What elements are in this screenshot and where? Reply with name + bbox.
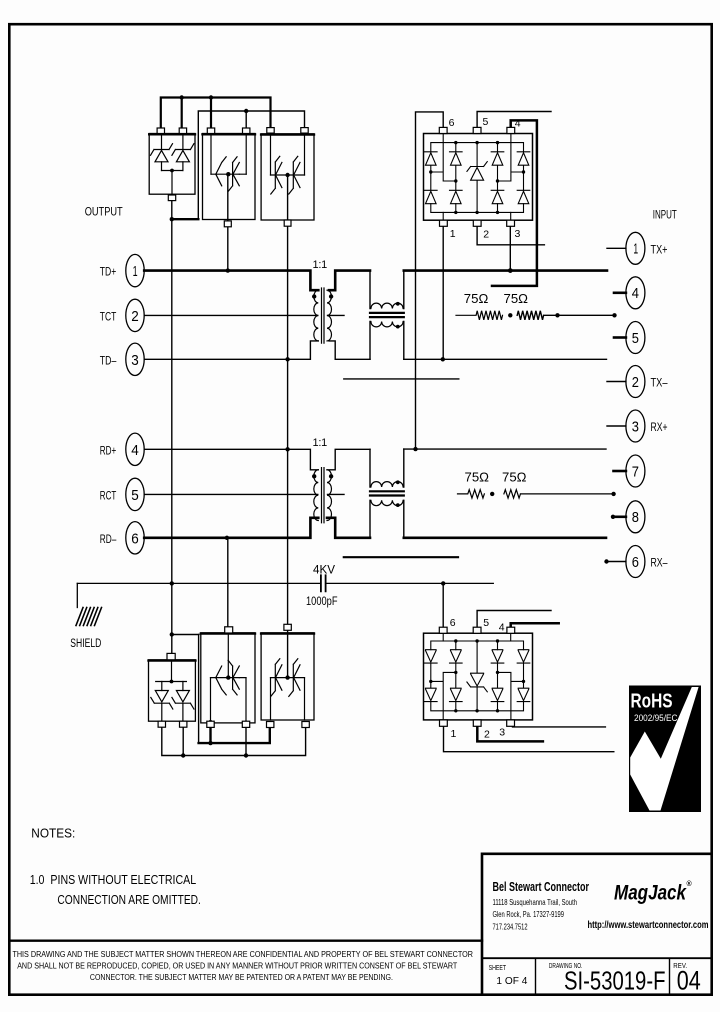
terminal square box6 bottom L: [267, 722, 274, 728]
transformer T2: [312, 437, 333, 523]
terminal square box6 bottom R: [302, 722, 309, 728]
junction dot pin8 stub: [611, 515, 615, 519]
wire U2 pin5 route: [477, 611, 551, 628]
svg-text:11118 Susquehanna Trail, South: 11118 Susquehanna Trail, South: [493, 897, 578, 907]
svg-text:1: 1: [133, 263, 138, 280]
wire U2 pin2 route thick: [477, 726, 543, 741]
svg-text:04: 04: [677, 966, 701, 996]
disclaimer text: [12, 950, 473, 982]
wire U1 pin5 route: [477, 112, 551, 129]
junction dot thick bus box5L: [208, 741, 212, 745]
wire pin4 stub: [614, 291, 626, 294]
resistor R1 75ohm: [456, 292, 503, 320]
svg-text:2: 2: [632, 375, 639, 391]
svg-text:3: 3: [499, 727, 505, 739]
pin circle 4 RD+: [100, 433, 144, 465]
pin circle 8 (input): [626, 501, 645, 533]
diode pair symbol: [271, 659, 300, 697]
TVS diode D3: [151, 691, 173, 710]
junction dot TX- x442.8: [441, 357, 445, 361]
pin circle 3 RX+ (input): [626, 410, 668, 442]
U2 pin labels: [450, 617, 506, 741]
svg-text:4KV: 4KV: [313, 563, 335, 577]
TVS box P1: [149, 134, 195, 196]
U2 internal top bus: [431, 641, 524, 650]
svg-text:1.0 PINS WITHOUT ELECTRICAL: 1.0 PINS WITHOUT ELECTRICAL: [30, 873, 197, 887]
svg-text:7: 7: [632, 464, 639, 480]
svg-text:®: ®: [687, 880, 693, 888]
U1 terminal square 2: [473, 220, 481, 226]
title block vertical divider rev: [669, 958, 671, 995]
TVS box P5 (bottom): [201, 633, 255, 723]
capacitor C1 4KV 1000pF: [77, 563, 493, 608]
TVS box P3: [261, 134, 314, 220]
sheet cell: [489, 963, 528, 987]
svg-text:2: 2: [484, 729, 490, 741]
svg-text:4: 4: [632, 286, 639, 302]
U1 terminal square 3: [507, 220, 515, 226]
U2 diode col4: [517, 650, 530, 702]
terminal square box5 bottom L: [207, 721, 214, 727]
terminal square box3 bottom: [284, 220, 291, 226]
U1 terminal square 6: [439, 127, 447, 133]
notes text: [30, 826, 201, 906]
wire U2 pin3 route: [513, 725, 606, 728]
U1 terminal square 4: [507, 127, 515, 133]
pin circle 4 (input): [626, 277, 645, 309]
wire bottom thin bus: [162, 721, 306, 755]
junction dot thin bus box4R: [181, 753, 185, 757]
wire U1 pin2 down: [477, 226, 544, 245]
TVS diode D1: [151, 144, 173, 162]
wire long vertical x171.8: [171, 201, 173, 653]
junction dot between R1 R2: [508, 313, 512, 317]
diode array U1 box: [424, 134, 533, 221]
U1 bus dots: [454, 141, 499, 214]
wire pin2 stub: [607, 381, 626, 383]
pin circle 6 RX- (input): [626, 546, 668, 578]
svg-text:CONNECTION ARE OMITTED.: CONNECTION ARE OMITTED.: [57, 893, 201, 907]
resistor R2 75ohm: [504, 292, 615, 320]
svg-text:SHIELD: SHIELD: [70, 638, 101, 650]
U1 terminal 1 inner: [442, 212, 444, 220]
wire bottom thick bus: [199, 721, 270, 743]
shield symbol: [70, 583, 101, 650]
pin circle 3 TD-: [100, 343, 144, 375]
svg-text:1:1: 1:1: [313, 259, 328, 271]
junction dot shield wire x443: [441, 581, 445, 585]
wire U1 pin6 route: [416, 112, 444, 449]
TVS box P2: [203, 134, 256, 220]
terminal square box1 bottom: [168, 195, 175, 201]
U1 terminal 3 inner: [510, 212, 512, 220]
diode array U2 box: [424, 633, 533, 720]
TVS diode D4: [172, 691, 194, 710]
wire RCT: [144, 493, 344, 495]
junction dot RX+ x415.5: [413, 447, 417, 451]
wire pin7 stub: [614, 470, 626, 473]
junction dot bus2 box2R: [244, 109, 248, 113]
svg-text:75Ω: 75Ω: [465, 471, 490, 485]
wire TCT: [144, 314, 344, 316]
junction dot TD+ x227.8: [226, 268, 230, 272]
wire pin3 stub: [607, 425, 626, 427]
wire pin6 stub: [607, 561, 626, 563]
wire TD+ net thick: [144, 271, 607, 291]
U2 terminal square 6: [439, 627, 447, 633]
U2 bus dots: [454, 639, 499, 712]
svg-text:Glen Rock, Pa. 17327-9199: Glen Rock, Pa. 17327-9199: [493, 909, 565, 919]
svg-text:RCT: RCT: [100, 489, 117, 503]
U1 diode col4: [517, 152, 530, 204]
svg-text:75Ω: 75Ω: [464, 292, 489, 306]
terminal square box3 top R: [301, 128, 308, 134]
svg-text:RD+: RD+: [100, 444, 117, 458]
U2 terminal square 1: [440, 720, 448, 726]
junction dot pin6 stub: [604, 559, 608, 563]
svg-text:TCT: TCT: [100, 310, 117, 324]
svg-text:717.234.7512: 717.234.7512: [493, 921, 528, 931]
pin circle 1 TX+ (input): [626, 232, 668, 264]
TVS box P6 (bottom): [261, 633, 314, 720]
svg-text:4: 4: [515, 118, 521, 130]
junction dot R2 line end: [612, 313, 616, 317]
terminal square box2 top L: [207, 128, 214, 134]
wire U1 pin4 route thick: [492, 120, 537, 286]
wire U2 pin6 up: [442, 583, 444, 627]
terminal square box2 bottom: [224, 221, 231, 227]
wire U2 pin4 route thick: [511, 623, 559, 627]
terminal square box6 top: [284, 624, 291, 630]
wire pin5 stub: [614, 336, 626, 339]
U2 terminal square 3: [507, 720, 515, 726]
title block divider: [482, 957, 712, 959]
rev cell: [673, 961, 701, 995]
svg-text:MagJack: MagJack: [614, 882, 687, 905]
junction dot RD+ x287.6: [285, 447, 289, 451]
U1 zener TVS center: [467, 143, 487, 213]
svg-text:6: 6: [632, 555, 639, 571]
pin circle 1 TD+: [100, 254, 144, 286]
svg-text:TX+: TX+: [651, 242, 668, 256]
svg-text:2: 2: [483, 229, 489, 241]
svg-text:8: 8: [632, 510, 639, 526]
terminal square box5 bottom R: [242, 721, 249, 727]
U1 diode col2: [450, 152, 463, 204]
svg-text:6: 6: [450, 617, 456, 629]
terminal square box2 top R: [243, 128, 250, 134]
U2 terminal 4 inner: [510, 633, 512, 641]
title block frame: [482, 854, 712, 995]
wire top bus 2: [198, 111, 304, 219]
junction dot shield wire x172: [170, 581, 174, 585]
wire U1 pin3 down: [509, 226, 511, 270]
wire RD+ / RX+ net: [144, 449, 606, 470]
svg-text:1 OF 4: 1 OF 4: [496, 975, 527, 987]
svg-text:OUTPUT: OUTPUT: [85, 205, 123, 219]
U2 terminal 1 inner: [431, 672, 456, 720]
U2 terminal 3 inner: [498, 672, 524, 720]
junction dot RD- x226.7: [225, 536, 229, 540]
U1 terminal square 1: [440, 220, 448, 226]
U1 internal top bus: [431, 143, 524, 152]
drawing no cell: [549, 961, 666, 995]
terminal square box1 top R: [179, 128, 186, 134]
wire top bus 1: [161, 98, 271, 129]
anode join bar: [162, 171, 183, 196]
U1 diode col1: [425, 152, 438, 204]
U1 diode col3: [491, 152, 504, 204]
junction dot between R3 R4: [490, 492, 494, 496]
wire long vertical x287.6: [287, 175, 289, 678]
svg-text:TD+: TD+: [100, 265, 117, 279]
svg-text:THIS DRAWING AND THE SUBJECT M: THIS DRAWING AND THE SUBJECT MATTER SHOW…: [12, 950, 473, 959]
svg-text:http://www.stewartconnector.co: http://www.stewartconnector.com: [588, 920, 709, 931]
wire U1 pin1 down: [442, 226, 444, 359]
pin circle 5 RCT: [100, 478, 144, 510]
diode pair symbol: [216, 157, 240, 192]
wire pin1 stub: [607, 247, 626, 249]
U1 terminal square 5: [473, 127, 481, 133]
MagJack logo: [614, 880, 693, 905]
U2 terminal square 2: [473, 720, 481, 726]
junction dot TX+ x510: [508, 268, 513, 273]
svg-text:TD–: TD–: [100, 354, 117, 368]
svg-text:1: 1: [451, 728, 457, 740]
svg-text:4: 4: [131, 442, 139, 459]
diode pair symbol: [271, 156, 300, 194]
U1 terminal 4 inner: [498, 134, 524, 182]
svg-text:CONNECTOR. THE SUBJECT MATTER: CONNECTOR. THE SUBJECT MATTER MAY BE PAT…: [90, 973, 393, 982]
pin circle 2 TX- (input): [626, 366, 668, 398]
svg-text:1000pF: 1000pF: [306, 594, 338, 608]
TVS diode D2: [172, 144, 194, 162]
title block vertical divider sheet: [535, 958, 537, 995]
svg-text:1: 1: [450, 228, 456, 240]
svg-text:5: 5: [483, 116, 489, 128]
svg-text:NOTES:: NOTES:: [31, 826, 75, 840]
svg-text:1: 1: [633, 242, 638, 258]
svg-text:INPUT: INPUT: [653, 208, 677, 222]
svg-text:4: 4: [499, 622, 505, 634]
U2 diode col1: [425, 650, 438, 702]
U2 internal bottom bus: [431, 702, 524, 711]
svg-text:RoHS: RoHS: [631, 690, 673, 713]
svg-text:2: 2: [131, 308, 139, 325]
diode pair symbol: [216, 660, 240, 695]
U2 zener TVS center: [467, 641, 487, 711]
svg-text:3: 3: [515, 228, 521, 240]
U1 internal bottom bus: [431, 204, 524, 213]
wire U2 pin1 route: [444, 726, 614, 751]
junction dot bus1 box1R: [180, 95, 184, 99]
junction dot bus1 box2L: [209, 95, 213, 99]
wire RD- / RX- net thick: [144, 518, 606, 538]
svg-text:Bel Stewart Connector: Bel Stewart Connector: [493, 880, 590, 894]
wire pin8 stub: [613, 515, 626, 518]
svg-text:TX–: TX–: [651, 376, 668, 390]
svg-text:2002/95/EC: 2002/95/EC: [634, 713, 678, 723]
pin circle 5 (input): [626, 322, 645, 354]
common-mode choke L1: [370, 271, 404, 360]
RoHS logo: [629, 686, 701, 813]
junction dot on R2 line: [555, 313, 559, 317]
wire box2 bottom to TD+: [227, 174, 229, 270]
junction dot R4 line end: [611, 492, 615, 496]
junction dot x172 y219: [170, 217, 174, 221]
company name: [493, 880, 590, 932]
svg-text:AND SHALL NOT BE REPRODUCED, C: AND SHALL NOT BE REPRODUCED, COPIED, OR …: [17, 962, 457, 971]
terminal square box4 top: [167, 653, 175, 659]
svg-text:3: 3: [632, 419, 639, 435]
terminal square box4 bottom L: [158, 721, 165, 727]
U1 pin labels: [449, 116, 521, 241]
U2 diode col2: [450, 650, 463, 702]
isolation barrier line lower: [344, 556, 458, 558]
svg-text:5: 5: [632, 331, 639, 347]
wire link box1 to bus2 thick: [172, 218, 199, 220]
terminal square box3 top L: [267, 128, 274, 134]
wire y634 link: [172, 634, 199, 636]
svg-text:RD–: RD–: [100, 532, 117, 546]
terminal square box1 top L: [157, 128, 164, 134]
pin circle 2 TCT: [100, 299, 144, 331]
svg-text:5: 5: [131, 487, 139, 504]
U2 terminal square 4: [507, 627, 515, 633]
svg-text:5: 5: [483, 617, 489, 629]
svg-text:RX–: RX–: [651, 556, 668, 570]
wire TD- / TX- net: [144, 341, 606, 359]
disclaimer box: [9, 940, 482, 942]
svg-text:6: 6: [131, 530, 139, 547]
terminal square box5 top: [225, 627, 233, 633]
wire RD- to bottom box2: [227, 538, 229, 627]
junction dot x172 y634: [170, 632, 174, 636]
svg-text:SI-53019-F: SI-53019-F: [564, 965, 666, 995]
resistor R4 75ohm: [502, 471, 614, 498]
TVS box P4 (bottom): [149, 660, 196, 721]
junction dot TD- x287.6: [285, 357, 289, 361]
U1 terminal 6 inner: [431, 134, 456, 182]
pin circle 7 (input): [626, 455, 645, 487]
terminal square box4 bottom R: [180, 721, 187, 727]
PLACEHOLDER-TEXTS: [9, 686, 711, 996]
svg-text:1:1: 1:1: [313, 437, 328, 449]
svg-text:RX+: RX+: [651, 420, 668, 434]
transformer T1: [312, 259, 333, 343]
svg-text:6: 6: [449, 117, 455, 129]
common-mode choke L2: [370, 449, 404, 538]
isolation barrier line upper: [344, 378, 459, 380]
U2 diode col3: [491, 650, 504, 702]
junction dot thin bus box5R: [244, 753, 248, 757]
svg-text:SHEET: SHEET: [489, 963, 507, 972]
svg-text:75Ω: 75Ω: [502, 471, 527, 485]
pin circle 6 RD-: [100, 522, 144, 554]
resistor R3 75ohm: [458, 471, 490, 498]
svg-text:75Ω: 75Ω: [504, 292, 529, 306]
U2 terminal square 5: [473, 627, 481, 633]
U2 terminal 6 inner: [442, 633, 444, 641]
wire vertical x198.6 lower: [198, 635, 200, 744]
svg-text:3: 3: [131, 352, 139, 369]
